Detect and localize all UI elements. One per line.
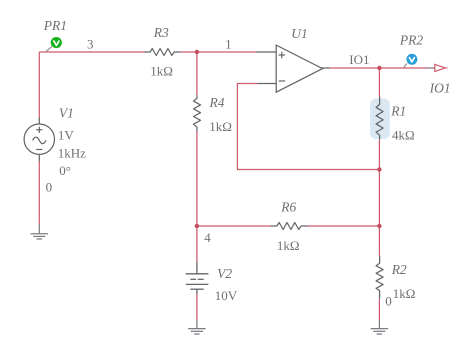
- svg-text:0°: 0°: [59, 163, 71, 178]
- svg-text:U1: U1: [291, 26, 308, 41]
- svg-text:PR2: PR2: [399, 33, 423, 48]
- wire op-amp output to arrow: [330, 67, 435, 69]
- wire node 4 down to V2: [196, 226, 198, 262]
- wire top horizontal (node 3): [39, 51, 145, 53]
- wire V1 bottom to ground: [38, 161, 40, 224]
- svg-text:0: 0: [385, 294, 392, 309]
- svg-text:R6: R6: [280, 199, 296, 214]
- ground under R2: [371, 320, 389, 334]
- wire feedback junction to R6 junction: [378, 170, 380, 227]
- junction feedback/R1: [377, 167, 381, 171]
- wire R6 to right column: [307, 225, 379, 227]
- wire R2 bottom to ground: [378, 299, 380, 320]
- svg-text:R3: R3: [153, 25, 169, 40]
- resistor R1: [376, 97, 383, 140]
- probe PR1: [46, 37, 62, 52]
- wire left vertical to V1: [38, 52, 40, 118]
- ground under V2: [188, 320, 206, 334]
- junction node 3/R4: [195, 50, 199, 54]
- junction node 4: [195, 224, 199, 228]
- svg-text:4kΩ: 4kΩ: [392, 127, 415, 142]
- op-amp U1: [256, 45, 330, 92]
- R1 selection highlight: [370, 99, 390, 140]
- svg-text:1kHz: 1kHz: [58, 145, 86, 160]
- wire output junction down to R1: [378, 68, 380, 97]
- svg-text:R1: R1: [390, 103, 406, 118]
- svg-text:1kΩ: 1kΩ: [393, 286, 416, 301]
- probe PR2: [404, 54, 418, 68]
- svg-text:1kΩ: 1kΩ: [150, 64, 173, 79]
- svg-text:IO1: IO1: [429, 81, 451, 96]
- wire V2 bottom to ground: [196, 294, 198, 320]
- svg-text:1V: 1V: [58, 128, 75, 143]
- junction R6/R2 column: [377, 224, 381, 228]
- svg-text:PR1: PR1: [43, 18, 67, 33]
- svg-text:V1: V1: [59, 105, 74, 120]
- resistor R3: [145, 49, 180, 56]
- svg-text:3: 3: [87, 37, 94, 52]
- ground under V1: [31, 224, 49, 239]
- output connector IO1 arrow: [427, 64, 448, 71]
- junction output IO1: [377, 66, 381, 70]
- wire feedback from op-amp inverting input: [237, 84, 379, 170]
- svg-text:R4: R4: [209, 95, 225, 110]
- svg-text:0: 0: [46, 180, 53, 195]
- svg-text:4: 4: [204, 230, 211, 245]
- wire R3 to op-amp + input: [180, 51, 256, 53]
- svg-text:V2: V2: [217, 266, 232, 281]
- svg-text:IO1: IO1: [349, 52, 369, 67]
- wire R4 top: [196, 52, 198, 95]
- resistor R6: [270, 223, 307, 230]
- svg-text:1kΩ: 1kΩ: [277, 238, 300, 253]
- svg-text:1: 1: [225, 36, 232, 51]
- wire R1 bottom to feedback junction: [378, 140, 380, 170]
- AC source V1: [24, 118, 54, 162]
- resistor R4: [194, 95, 201, 131]
- svg-text:10V: 10V: [215, 288, 238, 303]
- svg-text:1kΩ: 1kΩ: [209, 119, 232, 134]
- svg-text:R2: R2: [391, 262, 407, 277]
- resistor R2: [376, 256, 383, 299]
- wire R6 junction down to R2: [378, 226, 380, 256]
- battery V2: [186, 262, 209, 294]
- wire R4 bottom to node 4: [196, 131, 198, 226]
- wire bottom horizontal node4 to R6: [197, 225, 271, 227]
